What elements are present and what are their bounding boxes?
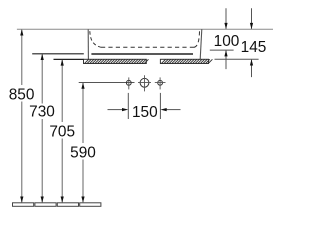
countertop hatch strip right bbox=[160, 59, 212, 63]
floor segment 2 bbox=[35, 203, 56, 207]
countertop hatch strip left bbox=[84, 59, 149, 63]
dimension 145 top shaft and down arrow bbox=[250, 8, 253, 29]
dimension line 705 bbox=[61, 59, 64, 203]
basin interior bottom solid line bbox=[91, 53, 193, 55]
dimension 100 bottom up arrow and shaft bbox=[224, 50, 227, 69]
basin interior dashed bottom bbox=[101, 46, 194, 48]
dimension 100 top shaft and down arrow bbox=[224, 8, 227, 29]
svg-text:590: 590 bbox=[70, 145, 96, 162]
right reference line for 100 bbox=[210, 49, 234, 51]
faucet holes centerline bbox=[79, 82, 135, 84]
150 dim extension line right bbox=[159, 93, 161, 119]
faucet hole center bbox=[138, 75, 151, 91]
faucet hole right bbox=[155, 77, 166, 89]
floor segment 1 bbox=[13, 203, 34, 207]
faucet hole left bbox=[126, 77, 131, 89]
150 dim extension line left bbox=[127, 93, 129, 119]
svg-text:850: 850 bbox=[9, 86, 35, 103]
svg-text:145: 145 bbox=[241, 39, 267, 56]
dimension line 850 bbox=[20, 29, 23, 203]
basin right wall bbox=[200, 29, 202, 59]
svg-text:150: 150 bbox=[132, 104, 158, 121]
basin interior dashed right wall bbox=[194, 31, 200, 47]
countertop-top extension line (705 reference) bbox=[54, 58, 84, 60]
svg-text:100: 100 bbox=[214, 33, 240, 50]
interior-bottom extension line (730 reference) bbox=[32, 53, 84, 55]
rim reference line (top horizontal) bbox=[17, 28, 273, 30]
dimension line 730 bbox=[41, 54, 44, 203]
basin left wall bbox=[87, 29, 89, 59]
basin interior dashed left wall bbox=[90, 31, 101, 47]
right reference line for 145 (countertop level) bbox=[215, 58, 259, 60]
dimension line 590 bbox=[81, 83, 84, 203]
svg-text:730: 730 bbox=[29, 104, 55, 121]
floor segment 4 bbox=[80, 203, 101, 207]
dimension 145 bottom up arrow and shaft bbox=[250, 59, 253, 77]
svg-text:705: 705 bbox=[49, 123, 75, 140]
150 dim left arrow bbox=[108, 108, 129, 111]
150 dim right arrow bbox=[160, 108, 180, 111]
floor segment 3 bbox=[57, 203, 78, 207]
